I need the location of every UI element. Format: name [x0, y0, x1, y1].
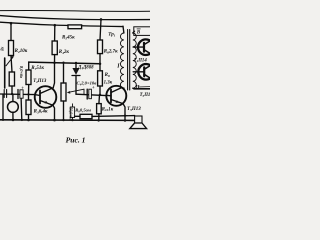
wire down x21 [20, 94, 23, 120]
transistor T3 driver [106, 86, 126, 106]
svg-text:Т4П14: Т4П14 [134, 58, 148, 63]
resistor R5 45k (horizontal, in bus 3) [68, 25, 82, 29]
resistor R7 51k [26, 70, 31, 85]
node bus3/R4 [54, 24, 57, 27]
wire T2 collector up [53, 63, 54, 88]
svg-text:1,3к: 1,3к [104, 81, 113, 86]
wire R7 leads [28, 62, 30, 94]
capacitor C1 (input) [3, 90, 5, 98]
svg-text:+: + [21, 86, 24, 91]
transistor T5 P14 [138, 64, 154, 80]
wire R1 bottom lead [11, 86, 13, 94]
capacitor C2 electrolytic [17, 90, 19, 99]
input screen thick bar [4, 58, 6, 88]
resistor R4 2k [52, 41, 57, 55]
potentiometer wiper arrow R2 [6, 57, 13, 66]
transformer core [127, 30, 129, 91]
svg-text:R751к: R751к [31, 66, 44, 71]
wire R10 leads [98, 95, 101, 121]
node base line junctions [11, 93, 13, 95]
wire R6 bottom lead [99, 54, 101, 64]
wire T3 collector to transformer [121, 87, 124, 89]
wire trimmer top lead [63, 63, 65, 83]
microphone circle [7, 102, 18, 113]
resistor R1 (left column) [9, 72, 14, 86]
wire thin right [138, 86, 150, 88]
svg-text:R42к: R42к [59, 50, 70, 55]
wire top bus 3 [0, 22, 123, 26]
node bus2/R6 [100, 18, 103, 21]
svg-text:Д1Д808: Д1Д808 [77, 65, 94, 70]
svg-text:R101к: R101к [102, 107, 114, 112]
wire R3 leads [28, 94, 30, 120]
svg-text:Т5П13: Т5П13 [127, 107, 141, 112]
svg-text:R90,5ом: R90,5ом [75, 108, 91, 114]
svg-text:R210к: R210к [15, 49, 28, 54]
wire R4 top lead [54, 25, 56, 41]
wire R4 bottom lead [54, 55, 56, 63]
wire trimmer bottom lead [63, 101, 65, 120]
speaker [135, 116, 142, 123]
resistor R2 10k (volume pot) [9, 41, 14, 56]
transistor T2 P13 [35, 86, 57, 108]
svg-text:Рис. 1: Рис. 1 [66, 136, 86, 145]
svg-text:R8: R8 [105, 73, 110, 78]
wire base line T3 [76, 94, 106, 95]
svg-text:8,0×6в: 8,0×6в [19, 66, 24, 78]
svg-text:R545к: R545к [62, 36, 75, 41]
wire bias rail y61.5 [29, 62, 100, 64]
svg-text:Вх: Вх [0, 46, 4, 51]
resistor R6 2.7k [98, 40, 103, 54]
wire input down to ground [2, 94, 4, 120]
svg-text:Тр1: Тр1 [108, 33, 115, 38]
svg-text:50,0×6в: 50,0×6в [69, 108, 73, 121]
wire base T5 [133, 71, 144, 73]
diode D1 D808 [75, 62, 77, 64]
wire thick right [134, 88, 150, 90]
wire base T4 [133, 46, 144, 48]
trimmer wiper arrow [69, 89, 85, 92]
wire input line [0, 93, 35, 96]
wire secondary top to B box [133, 31, 135, 33]
svg-text:Т5П1: Т5П1 [140, 93, 150, 98]
switch box B [134, 27, 151, 36]
svg-text:Т2П1З: Т2П1З [33, 79, 47, 84]
wire R9 to speaker [92, 115, 135, 118]
capacitor C5 column [70, 107, 74, 118]
wire secondary bottom [133, 87, 134, 90]
wire R2 bottom lead [11, 56, 12, 73]
wire R8 leads [99, 64, 101, 95]
resistor R9 0.5 ohm [75, 115, 81, 117]
wire R6 top lead [100, 19, 101, 40]
transistor T4 P14 [138, 39, 154, 55]
transformer Tr1 secondary winding II [133, 33, 136, 88]
wire top bus 2 [0, 16, 150, 20]
resistor R8 1.2k [98, 71, 103, 86]
wire R2 top lead [10, 23, 12, 40]
wire T3 emitter down [123, 104, 125, 121]
node junction bus3/R2 [10, 22, 13, 25]
svg-text:R62,7к: R62,7к [104, 50, 118, 55]
resistor R3 6.8k [26, 100, 31, 115]
wire top bus 1 [0, 9, 150, 12]
svg-text:+: + [92, 86, 95, 91]
ground bus bottom [0, 119, 135, 122]
resistor R10 1k [97, 104, 102, 114]
trimmer resistor [61, 83, 66, 101]
svg-text:R36,4к: R36,4к [34, 110, 48, 115]
node dots on ground bus [2, 119, 4, 121]
transformer Tr1 primary winding I [122, 26, 125, 33]
capacitor C4 electrolytic [86, 89, 88, 99]
wire T2 emitter down [53, 105, 55, 120]
